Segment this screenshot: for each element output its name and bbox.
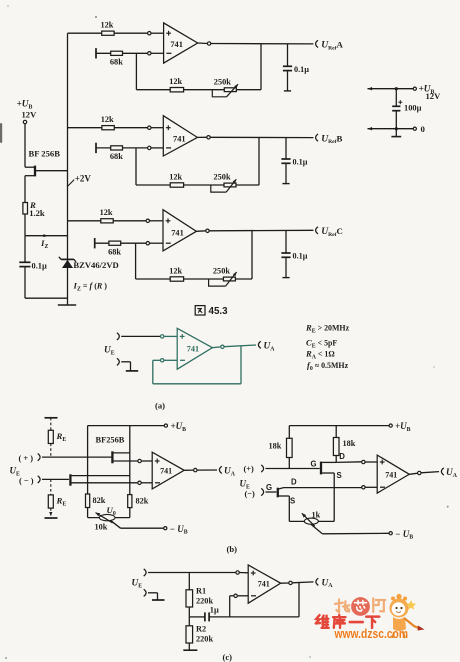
- wire feedback drop channel C: [135, 243, 137, 279]
- wire rail to 18k right: [335, 426, 337, 438]
- label 220k R1: [196, 597, 213, 606]
- wire + node to op-amp: [164, 335, 177, 337]
- terminal input UE c: [144, 569, 146, 576]
- ground main bus: [58, 304, 76, 306]
- svg-text:S: S: [290, 497, 295, 506]
- label RE lower: [56, 496, 67, 508]
- label D lower: [291, 478, 297, 487]
- wire +UB rail b-left: [88, 425, 165, 427]
- label 18k left: [269, 442, 282, 451]
- wire output c: [281, 582, 314, 583]
- node + input b-right: [362, 460, 365, 463]
- wire + node to op-amp b-right: [365, 461, 377, 463]
- node noninverting input channel C: [146, 219, 149, 222]
- wire output b-right: [409, 472, 439, 475]
- label IZ = f(R): [73, 281, 108, 293]
- wire feedback c: [230, 583, 299, 617]
- wire rail to 18k left: [288, 426, 290, 439]
- transistor BF256B (JFET current source): [25, 166, 68, 177]
- wire - node to op-amp b-left: [141, 482, 152, 484]
- potentiometer 250k channel C: [209, 272, 237, 286]
- node output c: [289, 581, 292, 584]
- svg-text:250k: 250k: [214, 77, 231, 86]
- svg-text:BF 256B: BF 256B: [29, 148, 61, 158]
- potentiometer 10k balance: [96, 513, 115, 523]
- svg-text:12k: 12k: [169, 266, 182, 275]
- resistor 12k input channel B: [102, 126, 114, 130]
- terminal output UA c: [316, 578, 318, 585]
- wire rail drop left to 82k: [87, 426, 89, 494]
- label 12k feedback channel B: [169, 172, 182, 181]
- node inverting input channel A: [148, 52, 151, 55]
- node follower output: [221, 345, 224, 348]
- label URefC: [321, 226, 343, 238]
- label (b): [227, 544, 238, 554]
- label 250k channel A: [214, 77, 231, 86]
- label (+) b-left: [19, 454, 34, 463]
- svg-text:68k: 68k: [110, 152, 123, 161]
- label UA c: [322, 578, 334, 589]
- wire FET source down to R: [24, 176, 26, 203]
- wire output b-left: [184, 469, 217, 471]
- wire output channel B: [197, 136, 313, 138]
- ground c input: [148, 593, 165, 600]
- op-amp U 741 b-right: [377, 455, 409, 493]
- label 12k feedback channel C: [169, 266, 182, 275]
- svg-text:250k: 250k: [214, 173, 231, 182]
- terminal (-) input b-right: [261, 488, 263, 495]
- label (-) b-left: [19, 477, 34, 486]
- svg-text:R1: R1: [196, 587, 206, 596]
- label 0: [421, 124, 426, 134]
- transistor Q4 lower JFET b-right: [278, 488, 362, 498]
- capacitor 0.1u output filter channel A: [283, 44, 292, 91]
- svg-text:0.1µ: 0.1µ: [293, 158, 308, 167]
- svg-text:BZV46/2VD: BZV46/2VD: [73, 260, 118, 270]
- svg-text:R2: R2: [196, 625, 206, 634]
- junction supply top: [395, 87, 398, 90]
- node - input b-right: [362, 486, 365, 489]
- label 68k channel B: [110, 152, 123, 161]
- node - input c: [234, 594, 237, 597]
- junction supply bottom: [395, 127, 398, 130]
- svg-text:( + ): ( + ): [19, 454, 34, 463]
- terminal lower input c: [144, 589, 146, 596]
- label note RA<1ohm: [305, 349, 335, 361]
- transistor Q2 lower JFET b-left: [70, 474, 137, 485]
- label note f0=0.5MHz: [307, 360, 349, 372]
- resistor RE upper (dashed source impedance): [45, 418, 58, 457]
- wire +2V bus to 12k input channel B: [68, 127, 148, 129]
- label 0.1u channel A: [294, 65, 309, 74]
- label R: [29, 200, 36, 210]
- wire (-) to lower gate b-right: [266, 491, 277, 493]
- wire bottom return to bus: [25, 297, 68, 299]
- resistor R2 220k: [186, 626, 193, 643]
- wire feedback up to output channel B: [258, 137, 260, 185]
- resistor 82k left: [86, 494, 90, 508]
- node inverting input channel B: [148, 146, 151, 149]
- label 220k R2: [196, 635, 213, 644]
- wire R2 to ground c: [188, 643, 190, 650]
- label 12k input channel B: [101, 115, 114, 124]
- label 100u: [404, 104, 422, 113]
- label BZV46/2VD: [73, 260, 118, 270]
- node - input b-left: [138, 481, 141, 484]
- wire 18k left to (+) wire: [288, 458, 290, 469]
- svg-text:(−): (−): [245, 490, 256, 499]
- svg-text:12k: 12k: [169, 77, 182, 86]
- watermark zhao-pian text: [335, 597, 385, 616]
- label 1.2k: [29, 208, 45, 218]
- svg-text:12V: 12V: [22, 110, 38, 120]
- label 250k channel B: [214, 173, 231, 182]
- label D upper: [339, 452, 345, 461]
- terminal -UB b-left: [164, 527, 167, 530]
- svg-text:12k: 12k: [101, 21, 114, 30]
- resistor RE lower (dashed): [45, 479, 58, 518]
- label 12V right: [426, 91, 442, 101]
- label G lower: [266, 483, 272, 492]
- resistor 12k feedback channel A: [170, 88, 183, 92]
- svg-text:68k: 68k: [110, 58, 123, 67]
- svg-text:1µ: 1µ: [210, 606, 219, 615]
- label R2: [196, 625, 206, 634]
- terminal output UA b-right: [441, 468, 443, 475]
- svg-text:0.1µ: 0.1µ: [32, 261, 47, 270]
- label 0.1u channel C: [293, 252, 308, 261]
- watermark weiku text: [316, 615, 379, 628]
- terminal output URefB: [316, 134, 318, 141]
- wire capacitor to bottom: [24, 267, 26, 299]
- node + input b-left: [138, 459, 141, 462]
- terminal (+) input b-right: [261, 465, 263, 472]
- label (+) b-right: [244, 465, 255, 474]
- op-amp U 741 c: [248, 565, 281, 603]
- label 68k channel A: [110, 58, 123, 67]
- node output channel B: [207, 136, 210, 139]
- potentiometer 1k balance: [302, 513, 319, 526]
- svg-text:18k: 18k: [269, 442, 282, 451]
- label URefB: [321, 133, 342, 145]
- transistor Q3 upper JFET b-right: [321, 462, 362, 475]
- wire + node to op-amp c: [239, 572, 248, 574]
- label URefA: [321, 40, 343, 52]
- node output b-right: [418, 471, 421, 474]
- capacitor 0.1u left branch: [19, 262, 30, 266]
- wire supply 0V rail: [368, 127, 414, 130]
- wire bottom rail b-right: [289, 520, 334, 522]
- potentiometer 250k channel B: [211, 179, 237, 192]
- wire node to op-amp + channel B: [151, 127, 163, 129]
- wire S lower down: [288, 496, 290, 521]
- label -UB b-left: [170, 524, 188, 536]
- wire UE to + node c: [148, 572, 236, 574]
- capacitor 0.1u output filter channel C: [281, 230, 290, 277]
- svg-text:741: 741: [160, 467, 172, 476]
- svg-text:( − ): ( − ): [19, 477, 34, 486]
- svg-text:741: 741: [173, 134, 186, 143]
- op-amp U 741 channel C: [163, 210, 196, 251]
- svg-text:18k: 18k: [343, 439, 356, 448]
- wire wiper to -UB b-left: [111, 521, 164, 528]
- svg-text:(b): (b): [227, 544, 238, 554]
- ground c bottom: [183, 649, 197, 651]
- terminal lower input follower: [117, 358, 119, 365]
- scan smudge left edge: [0, 123, 2, 143]
- label +UB b-right: [395, 421, 411, 433]
- label 0.1u channel B: [293, 158, 308, 167]
- svg-text:82k: 82k: [93, 496, 106, 505]
- label BF256B b-left: [96, 436, 125, 445]
- watermark dzsc url: [334, 627, 408, 641]
- wire bottom rail b-left: [88, 517, 130, 519]
- wire junction to R2 c: [188, 617, 190, 626]
- terminal +UB 12V supply left: [23, 120, 26, 123]
- svg-text:D: D: [291, 478, 297, 487]
- svg-text:220k: 220k: [196, 635, 213, 644]
- wire - node to op-amp c: [230, 595, 249, 597]
- resistor 68k channel B: [111, 146, 123, 150]
- svg-text:(a): (a): [155, 401, 165, 411]
- terminal +UB b-right: [389, 424, 392, 427]
- wire node to op-amp + channel A: [151, 32, 164, 34]
- wire R to IZ node: [24, 214, 26, 236]
- label 82k right: [136, 497, 149, 506]
- wire - node to op-amp: [164, 359, 177, 361]
- label +UB right: [419, 85, 435, 96]
- label 12V left supply: [22, 110, 38, 120]
- op-amp U 741 follower: [177, 328, 212, 369]
- wire junction to cap c: [189, 616, 205, 618]
- label RE upper: [56, 431, 67, 443]
- node + input c: [236, 571, 239, 574]
- terminal output URefC: [316, 227, 318, 234]
- wire output channel C: [196, 230, 313, 231]
- wire feedback drop channel B: [135, 148, 137, 185]
- resistor R1 220k: [186, 590, 193, 607]
- wire node to op-amp - channel B: [151, 147, 163, 149]
- capacitor 100u electrolytic: [392, 89, 402, 129]
- wire feedback follower: [153, 346, 241, 384]
- label UE follower: [104, 346, 115, 357]
- label U0 pot: [107, 505, 116, 517]
- resistor 18k right: [333, 438, 339, 456]
- label 10k: [95, 523, 108, 532]
- transistor Q1 upper JFET b-left: [112, 451, 138, 463]
- wire feedback up to output channel C: [251, 231, 253, 279]
- svg-text:741: 741: [385, 471, 397, 480]
- label UA follower: [264, 342, 276, 353]
- wire IZ node down to capacitor: [24, 236, 26, 262]
- wire - node to op-amp b-right: [365, 486, 377, 488]
- label S lower: [290, 497, 295, 506]
- op-amp U 741 channel B: [163, 116, 197, 156]
- wire cap to feedback junction c: [209, 616, 230, 618]
- wire (+) to upper gate b-right: [266, 468, 320, 470]
- terminal +UB b-left: [164, 424, 167, 427]
- label note CE<5pF: [306, 338, 337, 350]
- svg-text:www.dzsc.com: www.dzsc.com: [334, 627, 408, 641]
- ground supply: [391, 129, 401, 137]
- terminal output UA follower: [258, 341, 260, 348]
- node follower + input: [161, 335, 164, 338]
- label UE c: [132, 579, 143, 590]
- svg-text:12k: 12k: [101, 115, 114, 124]
- svg-text:0.1µ: 0.1µ: [294, 65, 309, 74]
- wire follower output: [212, 345, 256, 348]
- label UE b-left: [10, 466, 21, 478]
- wire +2V bus to 12k input channel A: [68, 32, 148, 34]
- resistor 68k channel A: [111, 51, 123, 55]
- wire (-) to lower FET gate: [42, 478, 69, 480]
- label BF 256B: [29, 148, 61, 158]
- svg-text:250k: 250k: [213, 267, 230, 276]
- wire R1 to junction c: [188, 607, 190, 617]
- svg-text:12V: 12V: [426, 91, 442, 101]
- label 12k input channel C: [100, 208, 113, 217]
- svg-text:+2V: +2V: [75, 174, 92, 184]
- label UE b-right: [240, 479, 251, 491]
- node noninverting input channel A: [148, 32, 151, 35]
- node output channel A: [207, 42, 210, 45]
- terminal input UE follower: [117, 333, 119, 340]
- svg-text:741: 741: [258, 579, 270, 588]
- terminal output URefA: [316, 40, 318, 47]
- svg-text:82k: 82k: [136, 497, 149, 506]
- label (-) b-right: [245, 490, 256, 499]
- svg-text:741: 741: [170, 40, 183, 49]
- svg-text:12k: 12k: [169, 172, 182, 181]
- node output b-left: [194, 468, 197, 471]
- svg-text:45.3: 45.3: [209, 306, 229, 317]
- svg-text:12k: 12k: [100, 208, 113, 217]
- wire 68k tbar terminal channel A: [96, 48, 148, 58]
- svg-text:1.2k: 1.2k: [29, 208, 45, 218]
- label 82k left: [93, 496, 106, 505]
- wire 12V terminal to FET drain: [25, 124, 34, 168]
- svg-text:741: 741: [187, 345, 199, 354]
- watermark mascot: [390, 594, 425, 638]
- wire (+) to upper FET gate: [42, 456, 112, 458]
- label S upper: [337, 471, 342, 480]
- label 250k channel C: [213, 267, 230, 276]
- node +2V tick: [68, 180, 75, 187]
- svg-text:D: D: [339, 452, 345, 461]
- resistor 68k channel C: [109, 241, 121, 245]
- wire wiper to -UB b-right: [311, 524, 389, 533]
- label 1u c: [210, 606, 219, 615]
- svg-text:0.1µ: 0.1µ: [293, 252, 308, 261]
- wire feedback drop channel A: [135, 53, 137, 89]
- wire junction up to - node c: [229, 596, 231, 617]
- op-amp U 741 b-left: [152, 452, 184, 489]
- svg-text:1k: 1k: [312, 511, 321, 520]
- wire supply +12V rail: [368, 87, 414, 90]
- ground follower input: [121, 362, 138, 371]
- wire feedback up to output channel A: [260, 44, 262, 90]
- wire feedback horizontal channel C: [136, 278, 252, 280]
- svg-text:741: 741: [171, 228, 184, 237]
- resistor 82k right: [128, 495, 132, 508]
- wire 82k left to bottom: [87, 508, 89, 518]
- label (c): [223, 652, 233, 662]
- op-amp U 741 channel A: [164, 23, 198, 63]
- label R1: [196, 587, 206, 596]
- svg-text:100µ: 100µ: [404, 104, 422, 113]
- wire feedback horizontal channel A: [136, 89, 261, 91]
- wire 82k right to bottom: [129, 508, 131, 518]
- label (a): [155, 401, 165, 411]
- wire 18k right to D junction: [335, 456, 337, 463]
- label UA b-right: [446, 468, 458, 479]
- wire S upper down: [333, 473, 335, 521]
- terminal (+) input b-left: [38, 454, 40, 461]
- node inverting input channel C: [146, 242, 149, 245]
- label figure 45.3: [195, 306, 228, 318]
- label UA b-left: [224, 467, 236, 478]
- wire output channel A: [198, 42, 314, 45]
- wire UE to + node: [121, 335, 160, 337]
- wire node to op-amp - channel A: [151, 52, 164, 54]
- resistor R 1.2k: [23, 203, 28, 215]
- terminal +UB right: [413, 87, 416, 90]
- label +2V: [75, 174, 92, 184]
- wire 68k tbar terminal channel B: [96, 143, 148, 153]
- label 0.1u left branch: [32, 261, 47, 270]
- svg-text:G: G: [266, 483, 272, 492]
- svg-text:0: 0: [421, 124, 426, 134]
- svg-text:(c): (c): [223, 652, 233, 662]
- wire node to op-amp - channel C: [149, 242, 163, 244]
- wire +UB rail b-right: [289, 425, 389, 427]
- wire feedback horizontal channel B: [136, 184, 259, 186]
- wire 68k tbar terminal channel C: [95, 238, 147, 248]
- terminal (-) input b-left: [38, 476, 40, 483]
- resistor 12k feedback channel B: [170, 183, 183, 187]
- label note RE>20MHz: [305, 323, 350, 335]
- potentiometer 250k channel A: [212, 84, 238, 97]
- wire node to op-amp + channel C: [149, 220, 163, 222]
- wire main +2V bus vertical: [67, 33, 69, 305]
- terminal -UB b-right: [389, 532, 392, 535]
- label G upper: [311, 460, 317, 469]
- terminal 0V: [413, 127, 416, 130]
- terminal output UA b-left: [219, 466, 221, 473]
- node follower - input: [161, 359, 164, 362]
- label 12k feedback channel A: [169, 77, 182, 86]
- label -UB b-right: [395, 529, 413, 541]
- capacitor 1u c: [205, 612, 209, 621]
- svg-text:S: S: [337, 471, 342, 480]
- wire +2V bus to 12k input channel C: [68, 220, 147, 222]
- label 1k: [312, 511, 321, 520]
- wire + node to op-amp b-left: [141, 460, 152, 462]
- resistor 18k left: [287, 438, 293, 457]
- svg-text:(+): (+): [244, 465, 255, 474]
- wire input to R1 drop c: [188, 573, 190, 590]
- node output channel C: [206, 229, 209, 232]
- svg-text:BF256B: BF256B: [96, 436, 125, 445]
- resistor 12k input channel A: [102, 31, 114, 35]
- diode zener BZV46/2VD on bus: [59, 257, 76, 268]
- label 68k channel C: [108, 247, 121, 256]
- label 18k right: [343, 439, 356, 448]
- label IZ: [40, 238, 48, 250]
- resistor 12k input channel C: [101, 219, 113, 223]
- node noninverting input channel B: [148, 126, 151, 129]
- svg-text:68k: 68k: [108, 247, 121, 256]
